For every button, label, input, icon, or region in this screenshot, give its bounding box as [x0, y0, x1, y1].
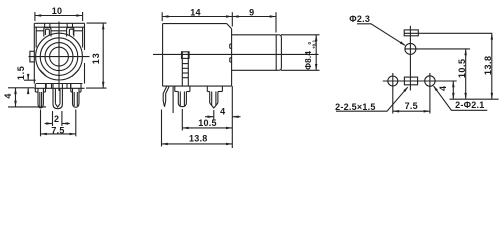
svg-text:Φ8.4: Φ8.4: [304, 51, 313, 70]
svg-text:4: 4: [438, 86, 448, 91]
svg-text:13.8: 13.8: [483, 56, 493, 76]
svg-text:2-2.5×1.5: 2-2.5×1.5: [335, 102, 376, 112]
svg-text:10.5: 10.5: [457, 59, 467, 79]
svg-text:1.5: 1.5: [16, 65, 26, 80]
svg-text:7.5: 7.5: [51, 125, 64, 135]
svg-text:0: 0: [307, 41, 312, 44]
svg-text:13.8: 13.8: [189, 134, 208, 144]
svg-text:2-Φ2.1: 2-Φ2.1: [455, 100, 484, 110]
svg-text:4: 4: [3, 93, 13, 98]
svg-text:10.5: 10.5: [198, 118, 217, 128]
svg-text:2: 2: [54, 114, 59, 124]
svg-text:7.5: 7.5: [405, 101, 418, 111]
svg-text:Φ2.3: Φ2.3: [349, 14, 370, 24]
svg-text:10: 10: [52, 6, 63, 16]
svg-text:+0.1: +0.1: [312, 40, 317, 50]
svg-text:4: 4: [220, 106, 225, 116]
svg-text:13: 13: [91, 52, 101, 64]
svg-text:9: 9: [249, 8, 254, 18]
svg-text:14: 14: [190, 8, 201, 18]
